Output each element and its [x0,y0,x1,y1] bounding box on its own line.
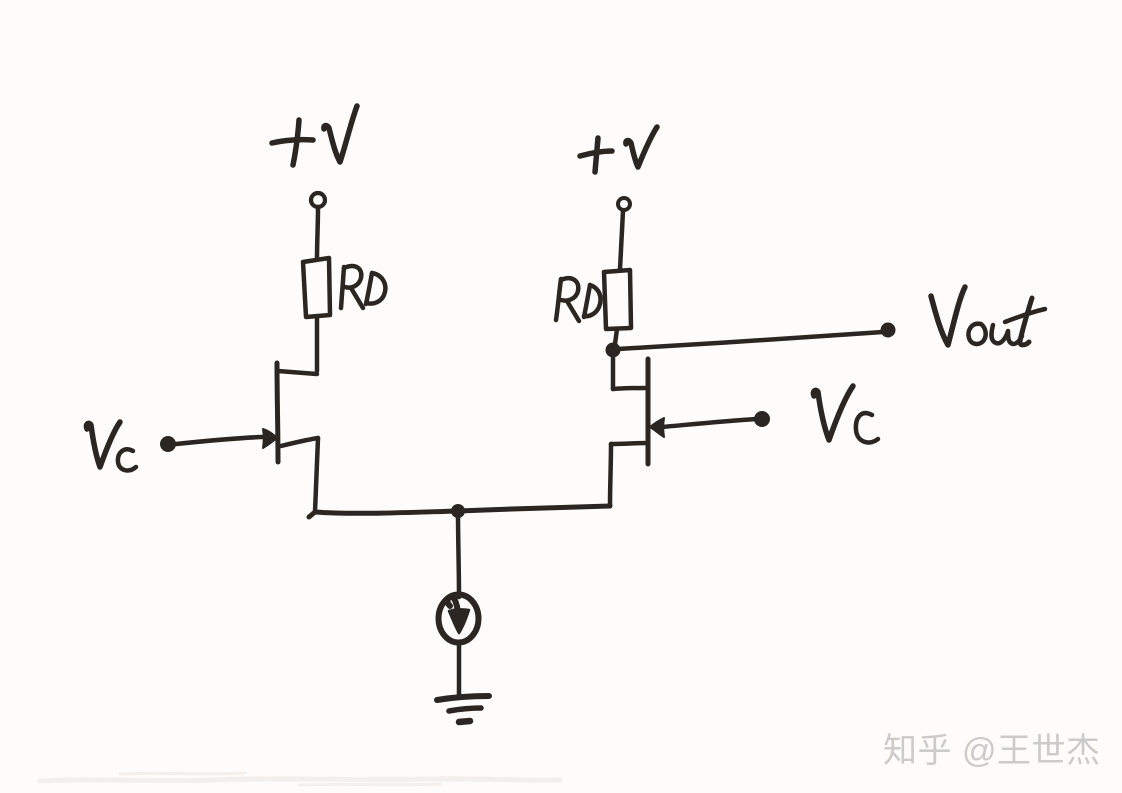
ground [437,696,489,722]
wire M2 source to common rail [610,444,611,506]
label Vc (right) [813,386,878,442]
+V terminal node (left, open circle) [311,193,325,207]
input terminal dot Vc (right) [754,411,770,427]
value label RD (left) [341,266,385,308]
transistor M2 (right) [611,353,648,464]
wire tail node to current source [458,512,459,597]
transistor M1 (left) [277,363,318,462]
wire +V right terminal to resistor RD right [620,211,623,269]
resistor RD (right) [604,270,631,329]
wire +V left terminal to resistor RD left [317,207,318,259]
value label RD (right) [556,278,601,321]
label Vc (left) [86,422,136,470]
wire M1 source to common rail [315,438,318,512]
gate arrowhead M1 [263,429,277,448]
power +V label (left) [272,106,357,165]
common source rail wire [309,506,610,517]
wire resistor RD right to drain node [615,329,617,344]
gate wire Vc right to M2 [662,419,756,427]
power +V label (right) [580,127,657,172]
wire drain node to Vout terminal [618,332,883,349]
watermark [883,723,1100,772]
Vout terminal dot [881,323,896,338]
wire resistor RD left to M1 drain [315,317,320,371]
wire current source to ground [457,643,462,696]
input terminal dot Vc (left) [160,436,176,452]
gate wire Vc left to M1 [176,437,262,444]
+V terminal node (right, open circle) [618,198,630,210]
current source I1 [439,595,479,643]
label Vout [931,287,1045,345]
drain node dot (right) [606,343,621,358]
resistor RD (left) [303,258,330,317]
gate arrowhead M2 [650,418,664,437]
junction node (tail) [451,504,465,518]
